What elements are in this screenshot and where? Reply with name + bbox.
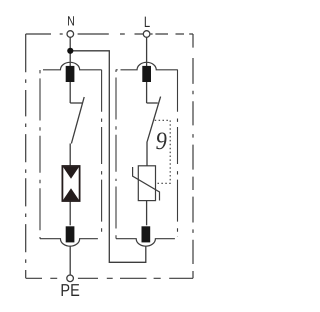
svg-text:9: 9 <box>156 128 168 155</box>
svg-text:N: N <box>67 14 75 29</box>
svg-text:PE: PE <box>60 280 79 300</box>
svg-text:L: L <box>144 14 150 31</box>
